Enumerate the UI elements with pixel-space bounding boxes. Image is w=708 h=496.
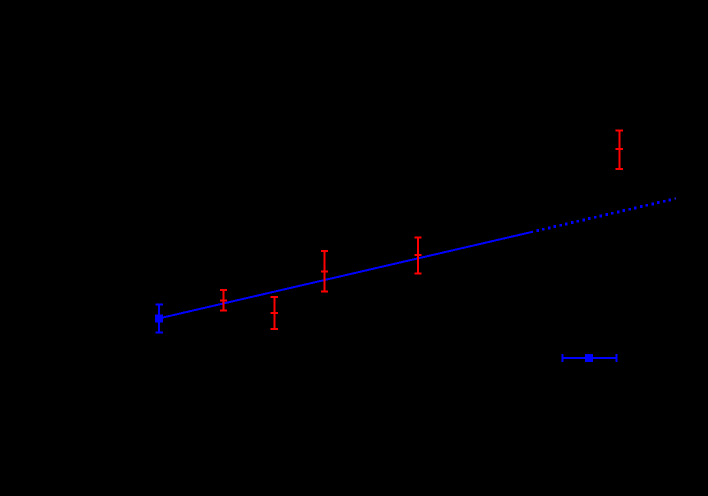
blue data point P1 with vertical error bar and square marker [155, 305, 163, 333]
red error bar E1 [220, 290, 227, 311]
red error bar E4 [414, 237, 421, 273]
red error bar E3 [321, 251, 328, 292]
red error bar E5 [616, 130, 623, 169]
fit line (solid segment) [159, 232, 533, 319]
red error bar E2 [271, 297, 278, 329]
fit line (dotted extrapolation segment) [536, 198, 676, 232]
legend sample: horizontal error bar with square marker [563, 354, 617, 362]
